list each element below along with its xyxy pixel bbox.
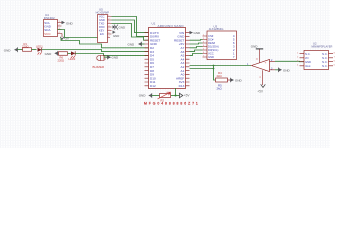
svg-text:+5V: +5V xyxy=(257,89,264,93)
wire Arduino A6 to LCD D0 xyxy=(190,50,203,52)
ground flag GND (R5) xyxy=(231,78,243,83)
svg-text:GND: GND xyxy=(119,26,127,30)
op-amp U6 xyxy=(247,49,275,85)
svg-text:D1(SDA): D1(SDA) xyxy=(208,45,219,49)
wire junction up to Arduino xyxy=(175,88,177,96)
svg-text:VCC: VCC xyxy=(208,52,214,56)
svg-text:VCC: VCC xyxy=(99,15,105,19)
resistor R6 220 xyxy=(58,52,68,63)
svg-text:D12: D12 xyxy=(150,84,156,88)
svg-text:+: + xyxy=(265,60,267,64)
svg-text:D0(SCL): D0(SCL) xyxy=(208,48,219,52)
svg-text:RES#: RES# xyxy=(208,41,216,45)
svg-text:JLX12864G: JLX12864G xyxy=(209,27,224,31)
ground flag GND (U4 pin1) xyxy=(62,21,74,26)
svg-text:DC#: DC# xyxy=(208,38,214,42)
IC U2 (MINI MP3 PLAYER) xyxy=(297,42,336,70)
svg-text:220Ω: 220Ω xyxy=(58,58,65,62)
wire LED1 to Arduino D2 xyxy=(42,50,149,52)
wire xyxy=(18,49,23,51)
wire Arduino A0 down to R5 xyxy=(190,66,216,81)
wire U4 SDA to HC-05 pin6 xyxy=(58,30,108,38)
svg-text:GND: GND xyxy=(283,68,291,72)
wire Arduino RESET to LCD DC# xyxy=(190,39,203,42)
wire HC-05 pin3 down to Arduino xyxy=(112,24,149,41)
wire op-amp out to U2 xyxy=(275,60,304,62)
svg-text:N.C.: N.C. xyxy=(322,52,328,56)
buzzer BUZZER xyxy=(93,56,108,69)
LED1 xyxy=(36,44,43,54)
svg-text:+5V: +5V xyxy=(184,94,191,98)
svg-text:GND: GND xyxy=(208,55,214,59)
svg-text:HC-05/WP: HC-05/WP xyxy=(96,10,109,14)
svg-text:KEY: KEY xyxy=(99,29,104,33)
svg-text:−: − xyxy=(265,69,267,73)
LED2 xyxy=(69,51,76,61)
svg-text:RXD: RXD xyxy=(99,25,105,29)
ground flag GND (row1 left) xyxy=(4,47,18,52)
svg-text:2kΩ: 2kΩ xyxy=(217,74,223,78)
ground flag GND (op-amp V+) xyxy=(251,45,263,49)
ground flag GND (HC-05 pin5) xyxy=(113,31,120,38)
svg-text:GND: GND xyxy=(112,56,120,60)
wire Arduino A5 to LCD VCC xyxy=(190,54,203,56)
svg-text:ARDUINO NANO: ARDUINO NANO xyxy=(158,24,185,28)
svg-text:2kΩ: 2kΩ xyxy=(217,86,223,90)
IC U4 (RTC DS1302) xyxy=(44,13,63,37)
wire U4 area to Arduino RESET xyxy=(61,38,149,48)
svg-text:MFG04888886Z71: MFG04888886Z71 xyxy=(144,102,200,106)
svg-text:D13: D13 xyxy=(179,84,185,88)
svg-text:N.C.: N.C. xyxy=(322,56,328,60)
svg-text:EN: EN xyxy=(100,32,104,36)
svg-text:I/O: I/O xyxy=(305,56,309,60)
svg-text:CS#: CS# xyxy=(208,34,214,38)
wire Arduino +5V to LCD RES# xyxy=(190,43,203,44)
wire HC-05 pin1 to Arduino RX xyxy=(112,17,149,37)
svg-text:GND: GND xyxy=(113,34,119,38)
svg-text:TXD: TXD xyxy=(99,22,104,26)
ground flag GND (Arduino left GND pin) xyxy=(128,42,145,47)
svg-text:GND: GND xyxy=(66,21,74,25)
wire xyxy=(68,53,71,55)
ground flag GND (Arduino VIN pin) xyxy=(190,31,202,35)
svg-text:N.C.: N.C. xyxy=(305,52,311,56)
junction xyxy=(213,65,215,67)
svg-text:N.C.: N.C. xyxy=(322,60,328,64)
junction node xyxy=(175,95,177,97)
svg-text:LED1: LED1 xyxy=(36,44,43,48)
ground flag GND (LDR row) xyxy=(139,93,152,98)
photoresistor R2 (LDR) xyxy=(158,92,171,102)
wire + junction xyxy=(171,95,180,97)
svg-text:N.C.: N.C. xyxy=(322,64,328,68)
supply +5V (U4 VCC) xyxy=(60,34,70,41)
svg-text:GND: GND xyxy=(4,48,12,52)
IC U3 (LCD JLX12864G) xyxy=(203,25,237,60)
svg-text:MINIMP3PLAYER: MINIMP3PLAYER xyxy=(312,44,333,48)
ground flag GND (row2) xyxy=(45,51,58,56)
svg-text:VCC: VCC xyxy=(44,32,51,36)
resistor R5 xyxy=(216,71,231,91)
wire LED2 to Arduino D3 xyxy=(75,54,148,56)
wire xyxy=(152,95,160,97)
supply +5V (LDR) xyxy=(180,93,191,98)
wire Arduino A2 to op-amp xyxy=(190,65,252,67)
svg-text:GND: GND xyxy=(305,60,311,64)
junction xyxy=(213,68,215,70)
IC U5 (HC-05/WP) xyxy=(96,7,112,42)
wire HC-05 pin2 to Arduino TX xyxy=(112,20,149,33)
svg-text:GND: GND xyxy=(128,43,136,47)
wire buzzer pin xyxy=(104,56,108,58)
svg-text:GND: GND xyxy=(194,31,202,35)
svg-text:GND: GND xyxy=(99,18,105,22)
supply +5V (op-amp V-) xyxy=(257,84,265,93)
IC U1 (ARDUINO NANO) xyxy=(145,21,190,88)
ground flag GND (buzzer) xyxy=(108,55,120,60)
svg-text:BUZZER: BUZZER xyxy=(93,65,105,69)
ground flag GND (op-amp in-) xyxy=(275,68,291,73)
resistor R1 220 xyxy=(22,42,32,51)
svg-text:GND: GND xyxy=(139,93,147,97)
svg-text:U1: U1 xyxy=(152,21,156,25)
svg-text:GND: GND xyxy=(45,52,53,56)
canvas background xyxy=(0,0,340,148)
svg-text:220Ω: 220Ω xyxy=(22,45,29,49)
svg-text:Vout: Vout xyxy=(305,64,311,68)
svg-text:LED2: LED2 xyxy=(69,57,76,61)
svg-text:GND: GND xyxy=(251,45,258,49)
svg-text:DS1302: DS1302 xyxy=(44,16,55,20)
ground flag GND (HC-05 pin4) xyxy=(113,25,127,30)
svg-text:GND: GND xyxy=(235,79,243,83)
wire xyxy=(32,49,37,51)
wire Arduino A7 to LCD D1 xyxy=(190,47,203,48)
